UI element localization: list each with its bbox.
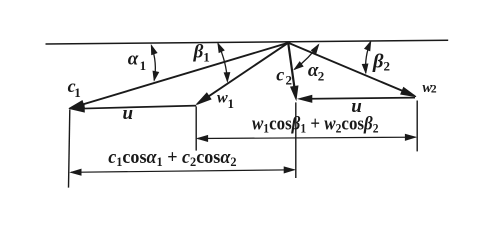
svg-text:2: 2 bbox=[384, 59, 391, 74]
svg-text:w: w bbox=[217, 90, 228, 107]
svg-text:1: 1 bbox=[140, 58, 147, 73]
svg-text:α: α bbox=[128, 49, 139, 70]
svg-text:c: c bbox=[276, 64, 284, 84]
svg-text:1: 1 bbox=[74, 85, 81, 100]
svg-text:w1cosβ1 + w2cosβ2: w1cosβ1 + w2cosβ2 bbox=[252, 112, 379, 135]
svg-text:c1cosα1 + c2cosα2: c1cosα1 + c2cosα2 bbox=[108, 147, 236, 169]
svg-text:β: β bbox=[193, 42, 204, 63]
svg-text:u: u bbox=[123, 103, 134, 124]
svg-text:1: 1 bbox=[203, 50, 210, 65]
svg-text:2: 2 bbox=[318, 69, 325, 84]
svg-text:β: β bbox=[372, 51, 384, 73]
svg-text:2: 2 bbox=[431, 83, 437, 95]
svg-text:1: 1 bbox=[228, 96, 235, 111]
svg-text:2: 2 bbox=[286, 73, 293, 88]
